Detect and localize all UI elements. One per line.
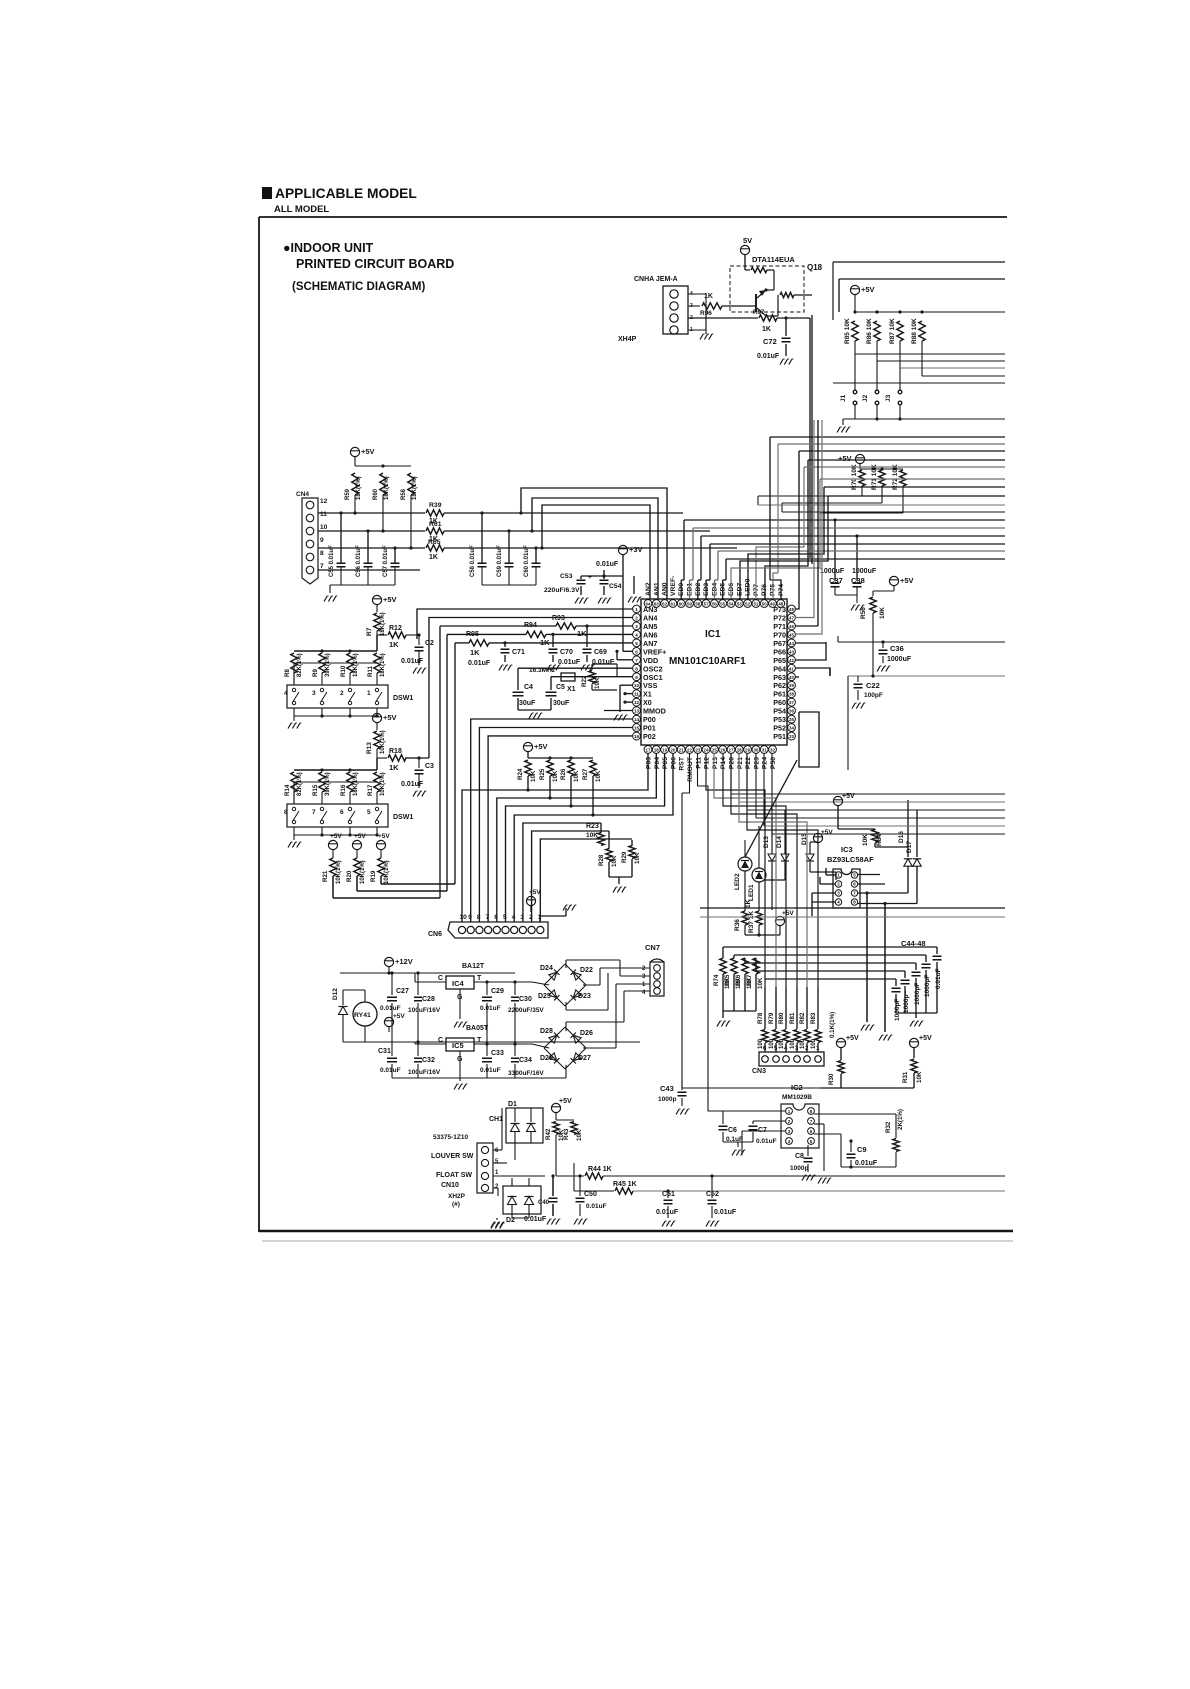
LED2 — [738, 857, 752, 871]
svg-text:0.01uF: 0.01uF — [757, 353, 780, 360]
wire CN6 col7 to R23 — [523, 823, 601, 922]
vertical x=708 from IC bottom to IC2 — [708, 795, 723, 1111]
svg-text:+5V: +5V — [378, 833, 390, 840]
svg-text:+5V: +5V — [842, 793, 855, 800]
resistor R72 10K — [900, 470, 906, 486]
svg-text:18: 18 — [654, 748, 659, 753]
svg-text:C6: C6 — [728, 1127, 737, 1134]
svg-text:X1: X1 — [567, 686, 576, 693]
svg-text:63: 63 — [654, 602, 659, 607]
IC1 top pin ED4 — [711, 600, 719, 608]
svg-text:AN2: AN2 — [645, 582, 652, 596]
svg-text:18K(1%): 18K(1%) — [384, 476, 390, 500]
svg-text:10: 10 — [634, 683, 640, 688]
svg-text:C54: C54 — [609, 583, 622, 590]
svg-text:C58 0.01uF: C58 0.01uF — [470, 545, 476, 577]
svg-text:10K: 10K — [916, 1071, 923, 1083]
svg-text:CN4: CN4 — [296, 491, 309, 498]
IC1 top pin ED5 — [719, 600, 727, 608]
svg-text:P11: P11 — [695, 757, 702, 769]
svg-text:0.01uF: 0.01uF — [468, 660, 491, 667]
svg-text:CN7: CN7 — [645, 943, 660, 952]
wires CN10 to diodes — [493, 1149, 502, 1151]
svg-text:Q18: Q18 — [807, 263, 823, 272]
wire AN4 row to R18/C3 — [429, 618, 633, 759]
svg-text:CN6: CN6 — [428, 931, 442, 938]
svg-text:R20: R20 — [346, 870, 353, 882]
capacitor C36 1000uF — [879, 649, 888, 651]
IC1 left pin 14 P00 — [633, 715, 641, 723]
svg-text:T: T — [477, 975, 482, 982]
diode block D2 — [503, 1186, 541, 1214]
resistor R11 18K(1%) — [374, 653, 380, 673]
+5V above D15 — [813, 833, 822, 842]
IC1 right pin P72 — [788, 614, 796, 622]
svg-text:6: 6 — [635, 649, 638, 654]
+5V for R36 R37 — [775, 916, 784, 925]
svg-text:+5V: +5V — [330, 833, 342, 840]
resistor R22 10K — [589, 671, 595, 684]
svg-text:LOUVER SW: LOUVER SW — [431, 1153, 474, 1160]
wire ground rail under C58-C60 — [481, 567, 483, 585]
svg-text:53375-1Z10: 53375-1Z10 — [433, 1134, 468, 1141]
capacitor C59 0.01uF — [508, 531, 510, 563]
resistor R37 1K — [756, 911, 762, 925]
capacitor C50 0.01uF — [579, 1190, 581, 1196]
svg-text:35: 35 — [789, 717, 794, 722]
wire VSS to ground — [620, 684, 633, 686]
svg-text:1K: 1K — [429, 554, 438, 561]
svg-text:17: 17 — [646, 748, 651, 753]
svg-text:MN101C10ARF1: MN101C10ARF1 — [669, 656, 746, 667]
svg-text:P04: P04 — [654, 757, 661, 769]
IC1 top pin VREF- — [669, 600, 677, 608]
svg-text:18K(1%): 18K(1%) — [356, 476, 362, 500]
svg-text:R11: R11 — [367, 665, 374, 677]
svg-text:C50: C50 — [584, 1191, 597, 1198]
svg-text:3: 3 — [312, 690, 316, 697]
svg-text:1000uF: 1000uF — [852, 568, 877, 575]
svg-text:IC4: IC4 — [452, 979, 465, 988]
svg-text:R88 10K: R88 10K — [911, 318, 918, 344]
IC1 bottom pin P05 — [661, 746, 669, 754]
resistor R20 10K(1%) — [354, 858, 360, 876]
wire CN6 col8 to R28 — [532, 831, 609, 922]
svg-text:+5V: +5V — [383, 713, 397, 722]
node +12V — [384, 957, 393, 966]
capacitor 0.01uF — [936, 947, 938, 954]
svg-text:10K: 10K — [576, 1129, 583, 1141]
svg-text:10K(1%): 10K(1%) — [360, 860, 366, 884]
wire risers ED6 ED7 LED0 P77 P76 — [765, 460, 808, 599]
svg-text:C: C — [438, 1037, 443, 1044]
capacitor C8 1000p — [807, 1145, 809, 1156]
resistor R7 — [374, 613, 380, 631]
capacitor C6 0.1uF — [722, 1111, 724, 1124]
ground under CN4 filter — [324, 596, 327, 602]
capacitor 1000pF — [915, 963, 917, 970]
svg-text:51: 51 — [753, 602, 758, 607]
svg-text:APPLICABLE MODEL: APPLICABLE MODEL — [275, 186, 417, 201]
svg-text:BA05T: BA05T — [466, 1025, 489, 1032]
svg-text:R25: R25 — [539, 768, 546, 780]
wire MMOD stub — [604, 710, 633, 712]
IC1 bottom pin P23 — [752, 746, 760, 754]
svg-text:0.01uF: 0.01uF — [480, 1005, 501, 1012]
capacitor C9 0.01uF — [850, 1141, 852, 1152]
svg-text:C56 0.01uF: C56 0.01uF — [356, 545, 362, 577]
resistor R29 10K — [629, 846, 635, 859]
svg-text:4: 4 — [635, 632, 638, 637]
wires below IC1 turning right to east bus — [730, 754, 732, 795]
svg-text:R32: R32 — [885, 1121, 892, 1133]
svg-text:D25: D25 — [538, 993, 551, 1000]
transistor Q18 DTA114EUA (dashed box) — [730, 266, 804, 312]
svg-text:R28: R28 — [598, 854, 605, 866]
svg-text:1K: 1K — [577, 629, 587, 638]
node +5V near R56 — [889, 576, 898, 585]
svg-text:C57 0.01uF: C57 0.01uF — [383, 545, 389, 577]
svg-text:P22: P22 — [745, 757, 752, 769]
IC1 top pin LED0 — [744, 600, 752, 608]
+5V above R20 — [352, 840, 361, 849]
capacitor 1000pF — [895, 979, 897, 986]
IC1 top pin ED2 — [694, 600, 702, 608]
svg-text:43: 43 — [789, 649, 794, 654]
svg-text:0.01uF: 0.01uF — [401, 781, 424, 788]
resistor R43 10K — [571, 1122, 577, 1135]
svg-text:0.01uF: 0.01uF — [524, 1216, 547, 1223]
svg-text:D13: D13 — [763, 836, 770, 848]
svg-text:R60: R60 — [373, 488, 379, 500]
svg-text:1000p~: 1000p~ — [903, 991, 910, 1013]
svg-text:27: 27 — [729, 748, 734, 753]
svg-text:0.01uF: 0.01uF — [380, 1067, 401, 1074]
svg-text:R71 10K: R71 10K — [871, 464, 878, 490]
svg-text:RMOUT: RMOUT — [687, 756, 694, 782]
svg-text:P13: P13 — [712, 757, 719, 769]
IC1 bottom pin P11 — [694, 746, 702, 754]
IC1 left pin 11 X1 — [633, 690, 641, 698]
wires C37/C38 to ground — [834, 587, 836, 595]
wire CN4 pin10 to R61 — [318, 530, 425, 532]
svg-text:1000pF: 1000pF — [924, 975, 931, 997]
svg-text:BA12T: BA12T — [462, 963, 485, 970]
+5V and R30 — [836, 1038, 845, 1047]
svg-text:R44 1K: R44 1K — [588, 1166, 612, 1173]
IC1 right pin P51 — [788, 732, 796, 740]
svg-text:R37 1K: R37 1K — [748, 911, 755, 933]
svg-text:0.01uF: 0.01uF — [586, 1203, 607, 1210]
wire R18 to AN4 column joint — [405, 757, 429, 759]
IC1 top pin P75 — [769, 600, 777, 608]
svg-text:IC5: IC5 — [452, 1041, 464, 1050]
wire cap feed line — [723, 946, 937, 948]
svg-text:62: 62 — [662, 602, 667, 607]
svg-text:+5V: +5V — [846, 1035, 859, 1042]
svg-text:R31: R31 — [902, 1071, 909, 1083]
svg-text:53: 53 — [737, 602, 742, 607]
wire bends from bottom pins down to CN3 columns — [706, 754, 765, 988]
wire R30/R31 junction rail — [820, 1087, 914, 1089]
svg-text:220uF/6.3V: 220uF/6.3V — [544, 587, 580, 594]
wire cap feed line — [756, 970, 905, 972]
svg-text:10K: 10K — [552, 770, 559, 782]
IC1 bottom pin P22 — [744, 746, 752, 754]
svg-text:1K: 1K — [762, 326, 771, 333]
IC1 left pin 5 AN7 — [633, 639, 641, 647]
svg-text:59: 59 — [687, 602, 692, 607]
top rail of DSW resistors — [294, 769, 377, 771]
svg-text:C70: C70 — [560, 649, 573, 656]
capacitor C29 0.01uF — [486, 982, 488, 995]
IC1 right pin P62 — [788, 681, 796, 689]
capacitor C70 0.01uF — [551, 633, 554, 636]
svg-text:60: 60 — [679, 602, 684, 607]
wire P00 P01 P02 to CN6 columns — [471, 719, 633, 922]
resistor R96 1K — [688, 305, 700, 307]
svg-text:+5V: +5V — [782, 910, 794, 917]
relay RY41 — [353, 1002, 377, 1026]
capacitor C27 0.01uF — [391, 973, 393, 995]
svg-text:MM1029B: MM1029B — [782, 1094, 812, 1101]
wire cap feed line — [734, 954, 926, 956]
svg-text:(#): (#) — [452, 1201, 460, 1208]
svg-text:+: + — [588, 574, 592, 581]
svg-text:R81: R81 — [789, 1012, 796, 1024]
svg-text:R59: R59 — [345, 488, 351, 500]
svg-text:10K: 10K — [611, 855, 618, 867]
svg-text:P06: P06 — [670, 757, 677, 769]
resistor R70 10K — [859, 470, 865, 486]
resistor R21 10K(1%) — [330, 858, 336, 876]
svg-text:R36: R36 — [734, 919, 741, 931]
wire cap bottom rail + ground — [896, 1012, 937, 1014]
resistor R30 0.1K(1%) — [838, 1061, 844, 1074]
capacitor C60 0.01uF — [535, 548, 537, 563]
+5V above R13 — [372, 713, 381, 722]
resistors R78-R83 100 + columns — [764, 987, 766, 1029]
svg-text:R80: R80 — [778, 1012, 785, 1024]
svg-text:10K: 10K — [634, 852, 641, 864]
connector CN10 XH2P — [477, 1143, 493, 1193]
svg-text:45: 45 — [789, 632, 794, 637]
wire risers from top pins P74 P75 to upper bus — [769, 437, 771, 580]
svg-text:31: 31 — [762, 748, 767, 753]
wires C6 C7 to IC2 left pins — [723, 1110, 786, 1112]
LED1 — [752, 868, 766, 882]
svg-text:0.01uF: 0.01uF — [592, 659, 615, 666]
svg-text:R19: R19 — [370, 870, 377, 882]
svg-text:7: 7 — [635, 658, 638, 663]
svg-text:18K(1%): 18K(1%) — [380, 653, 386, 677]
resistor R15 39K(1%) — [319, 772, 325, 792]
svg-text:24: 24 — [704, 748, 709, 753]
svg-text:RY41: RY41 — [354, 1012, 371, 1019]
switch block DSW1 — [287, 685, 388, 708]
IC1 bottom pin P21 — [735, 746, 743, 754]
svg-text:D17: D17 — [906, 841, 913, 853]
svg-text:5: 5 — [635, 641, 638, 646]
svg-text:C29: C29 — [491, 988, 504, 995]
svg-text:0.01uF: 0.01uF — [656, 1209, 679, 1216]
svg-text:DSW1: DSW1 — [393, 814, 413, 821]
wires R28/R29 to ground box — [608, 862, 610, 877]
wires from R19-R21 to CN6 columns — [332, 876, 334, 898]
svg-text:46: 46 — [789, 624, 794, 629]
svg-text:D1: D1 — [508, 1101, 517, 1108]
IC1 right pin P70 — [788, 631, 796, 639]
svg-text:10K: 10K — [573, 770, 580, 782]
svg-text:10: 10 — [460, 914, 468, 921]
IC1 right pin P61 — [788, 690, 796, 698]
svg-text:55: 55 — [720, 602, 725, 607]
svg-text:R10: R10 — [340, 665, 347, 677]
svg-text:6: 6 — [340, 809, 344, 816]
wire bus with C36 — [838, 641, 1005, 643]
svg-text:9: 9 — [320, 537, 324, 544]
wire CN4 pin12 to R39 — [318, 512, 425, 514]
svg-text:0.01uF: 0.01uF — [596, 561, 619, 568]
svg-text:33: 33 — [789, 734, 794, 739]
resistor R16 18K(1%) — [347, 772, 353, 792]
wire AN7 row — [455, 642, 469, 644]
svg-text:2: 2 — [340, 690, 344, 697]
svg-text:28: 28 — [737, 748, 742, 753]
svg-text:+5V: +5V — [861, 285, 875, 294]
svg-text:C36: C36 — [890, 644, 904, 653]
connector CN3 — [759, 1052, 824, 1066]
+5V above IC5 — [384, 1017, 393, 1026]
svg-text:+3V: +3V — [629, 545, 643, 554]
IC1 top pin P74 — [777, 600, 785, 608]
svg-text:10K(1%): 10K(1%) — [384, 860, 390, 884]
svg-text:58: 58 — [695, 602, 700, 607]
svg-text:R78: R78 — [757, 1012, 764, 1024]
wire bus lines upper right — [799, 450, 1005, 452]
svg-text:10K(1%): 10K(1%) — [336, 860, 342, 884]
bottom rail + ground of DSW — [293, 708, 295, 716]
IC1 right pin P53 — [788, 715, 796, 723]
wire cap feed line — [745, 962, 916, 964]
svg-text:10K: 10K — [595, 770, 602, 782]
IC1 left pin 6 VREF+ — [633, 647, 641, 655]
svg-text:C8: C8 — [795, 1153, 804, 1160]
svg-text:26: 26 — [720, 748, 725, 753]
capacitor C7 0.01uF — [752, 1121, 754, 1124]
svg-text:R58: R58 — [401, 488, 407, 500]
IC1 right pin P52 — [788, 724, 796, 732]
svg-text:XH2P: XH2P — [448, 1193, 466, 1200]
svg-text:15: 15 — [634, 726, 640, 731]
vertical from RMOUT down to C43 — [681, 793, 683, 1080]
svg-text:R9: R9 — [312, 669, 319, 677]
svg-text:2: 2 — [635, 615, 638, 620]
svg-text:R93: R93 — [552, 615, 565, 622]
IC1 left pin 1 AN3 — [633, 605, 641, 613]
svg-text:52: 52 — [745, 602, 750, 607]
resistor R13 — [374, 731, 380, 749]
svg-text:C55 0.01uF: C55 0.01uF — [329, 545, 335, 577]
svg-text:R85 10K: R85 10K — [844, 318, 851, 344]
svg-text:8: 8 — [320, 550, 324, 557]
svg-text:LED2: LED2 — [734, 873, 741, 890]
resistor R56 10K — [872, 591, 874, 596]
capacitor C72 0.01uF — [785, 318, 787, 336]
capacitor C56 0.01uF — [364, 562, 373, 564]
resistor R88 10K — [919, 321, 925, 341]
svg-text:R82: R82 — [799, 1012, 806, 1024]
lower DSW rail wire — [294, 781, 377, 783]
resistor R25 10K — [547, 760, 553, 776]
wire AN6 row — [447, 633, 526, 635]
svg-text:50: 50 — [762, 602, 767, 607]
connector CN6 — [448, 922, 548, 938]
svg-text:R86 10K: R86 10K — [866, 318, 873, 344]
svg-text:P12: P12 — [704, 757, 711, 769]
svg-text:1K: 1K — [745, 899, 752, 908]
resistor R24 10K — [525, 760, 531, 776]
svg-text:R16: R16 — [340, 784, 347, 796]
ground stub near IC1 top-left — [633, 576, 635, 594]
svg-text:+5V: +5V — [821, 829, 833, 836]
svg-text:J3: J3 — [885, 394, 892, 402]
svg-text:C5: C5 — [556, 684, 565, 691]
svg-text:R15: R15 — [312, 784, 319, 796]
capacitor 1000pF — [925, 955, 927, 962]
svg-text:J1: J1 — [840, 394, 847, 402]
svg-text:D23: D23 — [578, 993, 591, 1000]
vertical feed wires near CN3 to ground — [861, 1025, 864, 1031]
capacitor C30 2200uF/35V — [514, 982, 516, 995]
svg-text:DSW1: DSW1 — [393, 695, 413, 702]
IC1 right pin P64 — [788, 664, 796, 672]
svg-text:R56: R56 — [860, 607, 867, 619]
wire diagonal to LED2 — [745, 760, 797, 857]
svg-text:D27: D27 — [578, 1055, 591, 1062]
svg-text:R17: R17 — [367, 784, 374, 796]
base-emitter resistor inside Q18 — [745, 269, 750, 271]
svg-text:R72 10K: R72 10K — [892, 464, 899, 490]
svg-text:1K: 1K — [389, 763, 399, 772]
wire VREF+ to +3V rail — [623, 650, 633, 652]
IC1 bottom pin P20 — [727, 746, 735, 754]
capacitor C69 0.01uF — [585, 624, 588, 627]
resistor R60 18K(1%) — [380, 473, 386, 495]
svg-text:42: 42 — [789, 658, 794, 663]
svg-text:0.1K(1%): 0.1K(1%) — [829, 1012, 836, 1038]
svg-text:C72: C72 — [763, 337, 777, 346]
wire staircase IC1 bottom pins to CN6 — [462, 754, 648, 923]
svg-text:R22: R22 — [581, 675, 588, 687]
wire CN4 pin8 to R65 — [318, 547, 425, 549]
svg-text:21: 21 — [679, 748, 684, 753]
svg-text:BZ93LC58AF: BZ93LC58AF — [827, 855, 874, 864]
IC1 left pin 12 X0 — [633, 698, 641, 706]
wire crystal ground rail — [517, 698, 519, 710]
ground under jumpers — [837, 427, 840, 433]
IC1 top pin AN0 — [661, 600, 669, 608]
svg-text:P03: P03 — [646, 757, 653, 769]
resistor R85 10K — [852, 321, 858, 341]
IC1 bottom pin RMOUT — [686, 746, 694, 754]
IC1 left pin 13 MMOD — [633, 707, 641, 715]
capacitor C22 100pF — [857, 676, 859, 682]
svg-text:11: 11 — [634, 692, 639, 697]
svg-text:+5V: +5V — [354, 833, 366, 840]
wires bridge1 to CN7 — [583, 984, 600, 986]
svg-text:D14: D14 — [776, 836, 783, 848]
